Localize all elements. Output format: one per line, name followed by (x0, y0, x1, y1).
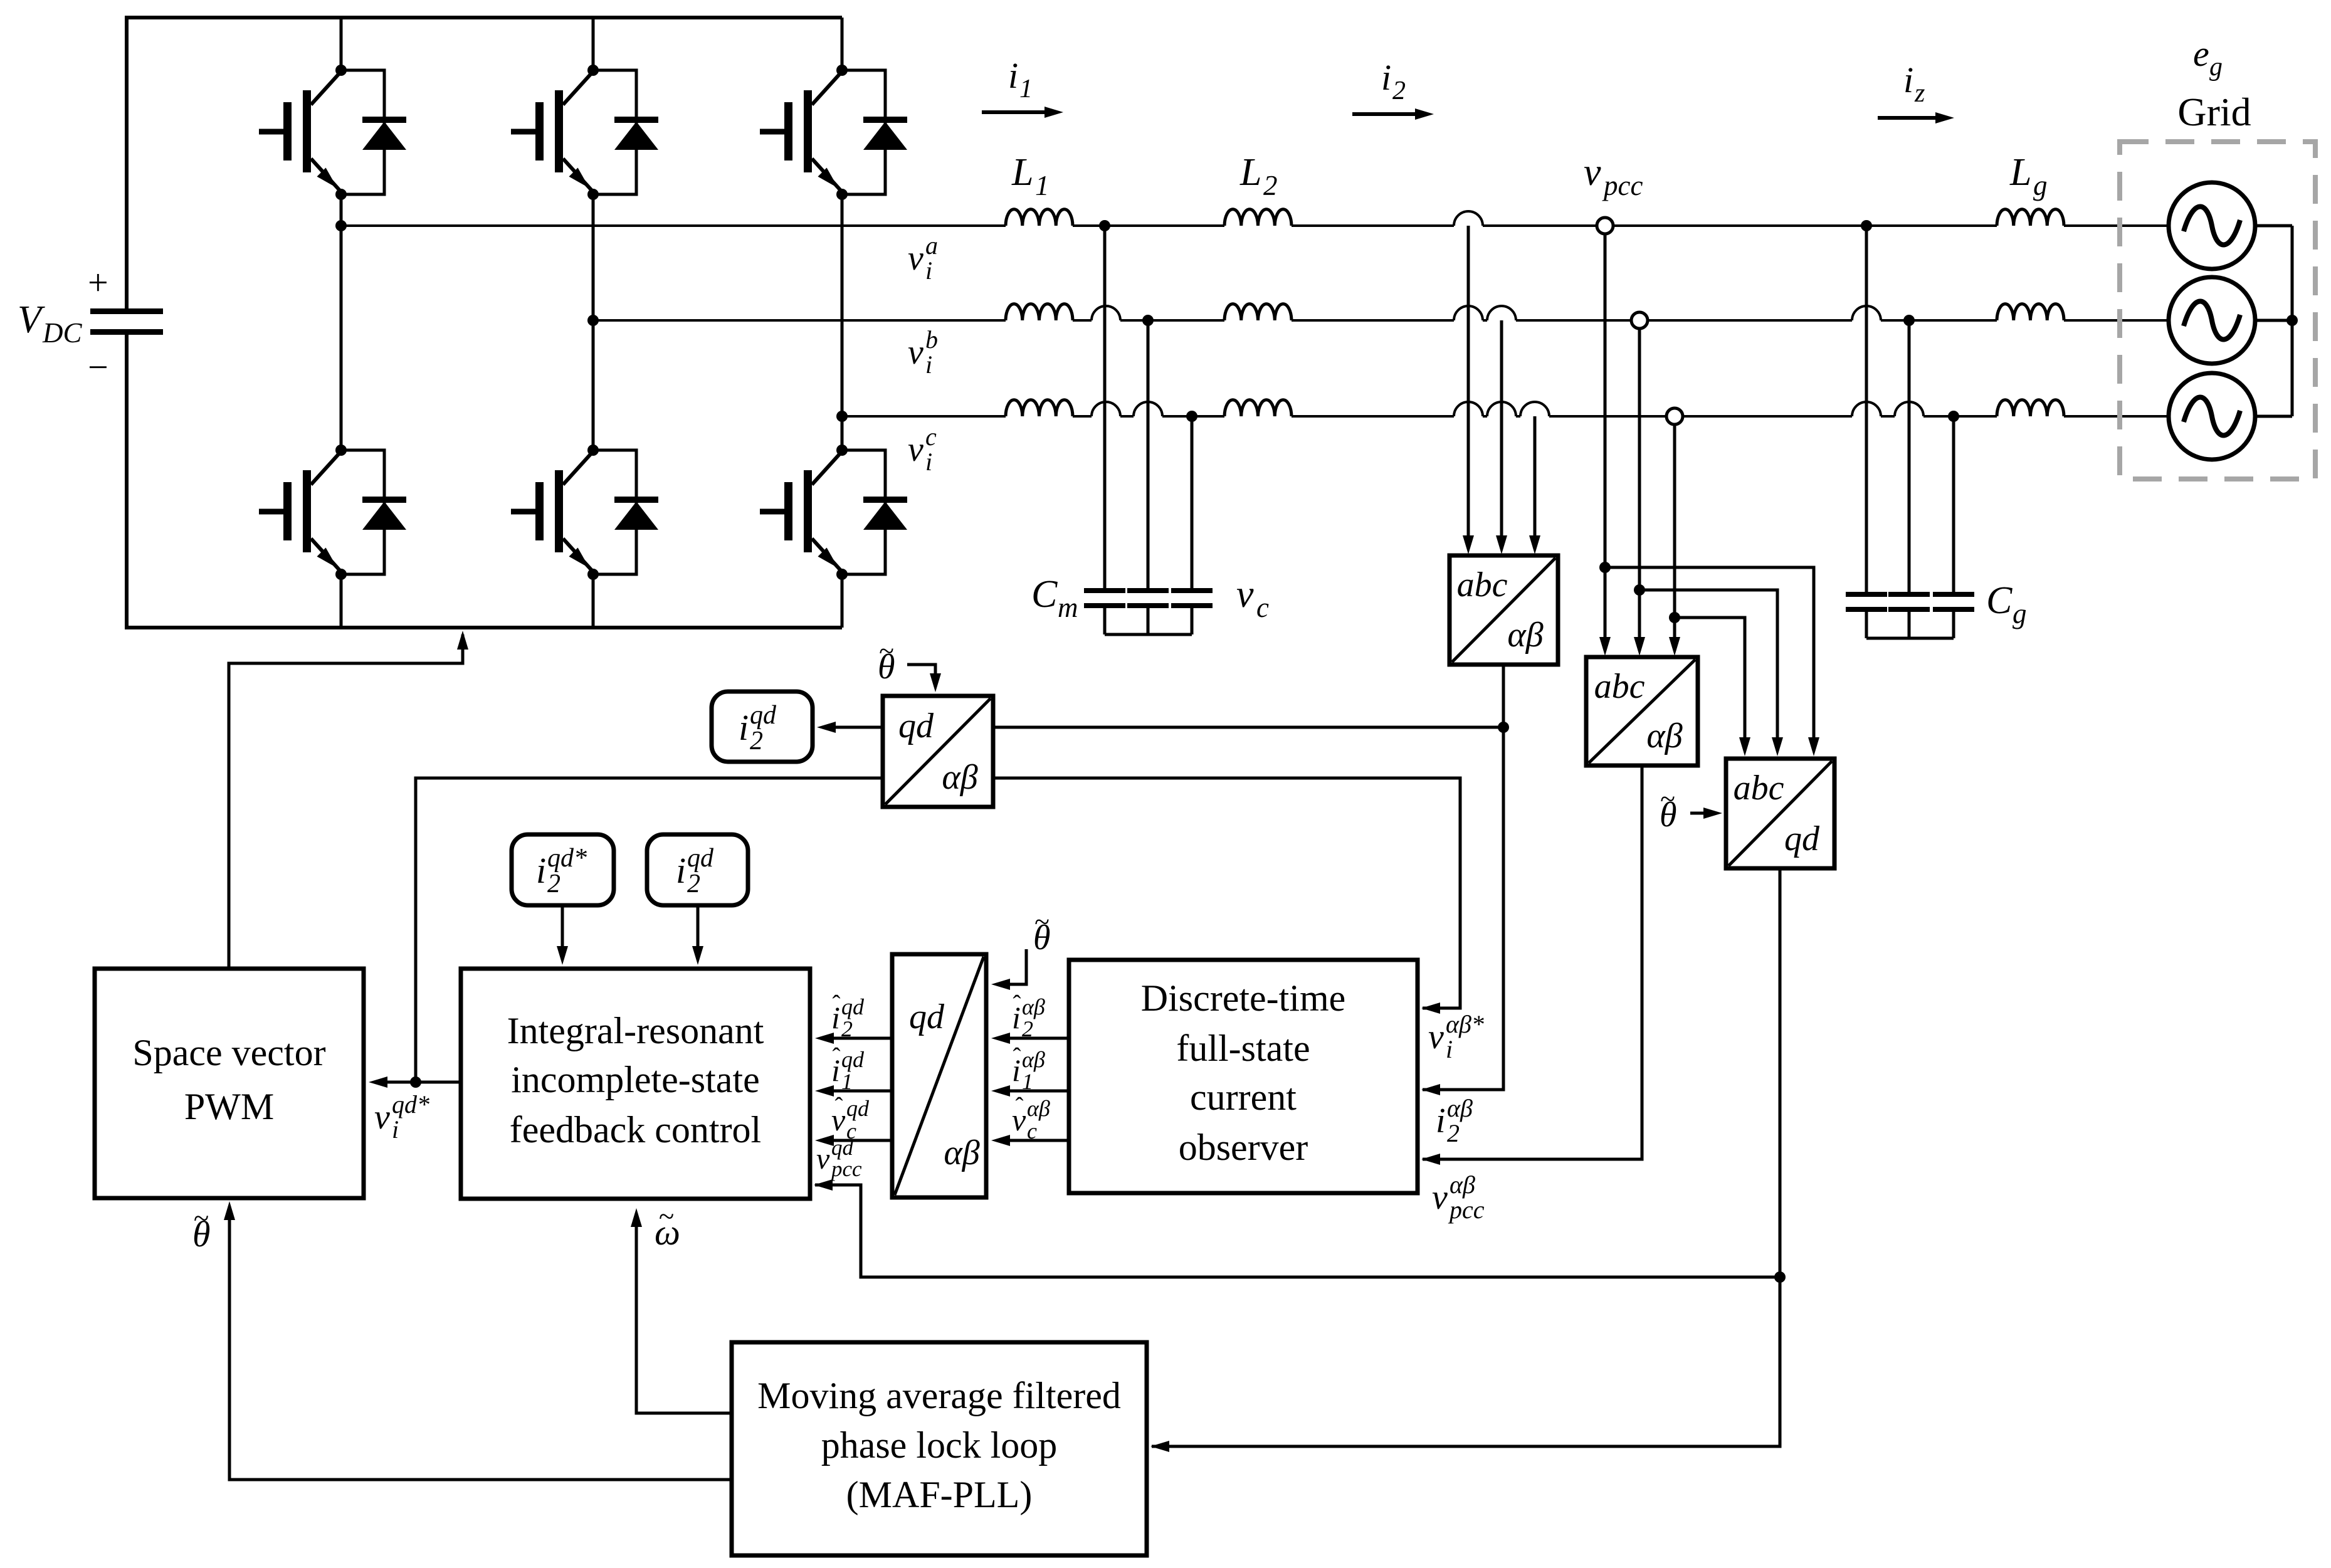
svg-text:v: v (1432, 1178, 1448, 1217)
svg-text:v: v (1584, 151, 1601, 194)
svg-text:abc: abc (1594, 667, 1645, 706)
wire: inverter leg 2 upper vertical (592, 18, 595, 70)
svg-text:qd: qd (841, 1047, 865, 1072)
hop: phase b over sensor-a wire (1454, 306, 1483, 320)
wire: Cm tap 1 (1103, 226, 1107, 588)
svg-text:C: C (1031, 573, 1058, 616)
wire: i2qd fb to feedback (697, 905, 700, 960)
wire: Cg tap 2 (1908, 320, 1911, 592)
inductor Lg phase c (1997, 400, 2064, 416)
svg-text:ˆ: ˆ (1013, 991, 1021, 1018)
node: vi qd* branch (410, 1076, 421, 1088)
svg-text:αβ: αβ (1646, 717, 1682, 755)
svg-text:~: ~ (1660, 784, 1675, 814)
wire: vi qd* to SVPWM (374, 1081, 461, 1084)
svg-text:m: m (1058, 592, 1078, 623)
svg-text:2: 2 (547, 870, 560, 898)
wire: Cg cap 3 to bar (1952, 612, 1955, 638)
svg-text:i: i (536, 850, 546, 891)
signal box i2qd out (712, 692, 813, 762)
wire: vi ab* to observer (993, 778, 1460, 1008)
wire: theta to SVPWM (229, 1206, 732, 1480)
inductor L1 phase a (1006, 209, 1073, 226)
wire: qd/ab2 to feedback y=1656 (820, 1037, 892, 1040)
transform block qd/ab observer (892, 954, 986, 1197)
wire: Cm common bar (1105, 633, 1192, 636)
wire: grid neutral bus (2291, 226, 2294, 416)
svg-text:qd: qd (898, 707, 934, 745)
svg-text:2: 2 (1447, 1119, 1460, 1147)
node vpcc phase b (open circle) (1631, 312, 1648, 329)
transistor Q5 (IGBT) (511, 445, 636, 580)
transform block abc/ab vpcc (1586, 657, 1698, 766)
arrow iz (1878, 116, 1944, 120)
wire: observer to qd/ab2 y=1740 (996, 1090, 1069, 1093)
wire: i2 sensor drop x=2448 (1534, 416, 1537, 549)
node: Cg tap phase b (1903, 315, 1915, 326)
wire: Cm cap 2 to bar (1147, 608, 1150, 634)
svg-text:i: i (1903, 60, 1913, 100)
svg-text:qd: qd (750, 701, 777, 730)
block MAF-PLL (732, 1342, 1147, 1555)
node: phase output leg 2 (587, 315, 599, 326)
svg-text:ˆ: ˆ (1013, 1043, 1021, 1070)
svg-text:2: 2 (841, 1016, 853, 1041)
wire: qd/ab2 to feedback y=1819 (820, 1139, 892, 1142)
wire: Cm tap 3 (1191, 416, 1194, 588)
svg-text:qd*: qd* (547, 844, 587, 873)
svg-text:qd: qd (687, 844, 714, 873)
wire: vi qd* up to qd/ab (416, 778, 883, 1082)
block observer (1069, 960, 1418, 1193)
svg-text:αβ: αβ (1022, 1047, 1045, 1072)
wire: egb to neutral bus (2255, 319, 2292, 322)
svg-text:abc: abc (1457, 566, 1508, 604)
transistor Q6 (IGBT) (760, 445, 885, 580)
node vpcc phase a (open circle) (1597, 218, 1613, 234)
wire: vpcc b to abc/qd (1639, 590, 1777, 751)
svg-text:αβ: αβ (1507, 616, 1543, 655)
hop: phase b over Cg-a wire (1852, 306, 1881, 320)
diode D-Q6 (antiparallel) (863, 497, 907, 530)
AC source egb (2169, 277, 2255, 364)
arrow i1 (982, 110, 1053, 114)
inductor L2 phase a (1224, 209, 1292, 226)
capacitor Cm-2 (1127, 588, 1169, 593)
svg-text:qd*: qd* (392, 1090, 429, 1118)
node: Cm tap phase b (1142, 315, 1154, 326)
wire: SVPWM to inverter gates (229, 634, 463, 969)
svg-text:full-state: full-state (1176, 1028, 1310, 1069)
svg-text:αβ: αβ (944, 1134, 979, 1172)
wire: observer to qd/ab2 y=1656 (996, 1037, 1069, 1040)
diode D-Q4 (antiparallel) (362, 497, 406, 530)
svg-text:2: 2 (750, 727, 763, 755)
svg-text:feedback control: feedback control (510, 1109, 761, 1150)
node: Cg tap phase c (1948, 411, 1959, 422)
wire: DC bus left vertical (upper) (125, 16, 129, 308)
wire: vpcc drop x=2671 (1673, 424, 1676, 651)
inductor L2 phase b (1224, 304, 1292, 320)
node: grid neutral (2286, 315, 2298, 326)
diode D-Q2 (antiparallel) (614, 117, 658, 150)
hop: phase c over Cm-b wire (1134, 402, 1162, 416)
svg-text:qd: qd (846, 1096, 870, 1121)
svg-text:c: c (1256, 592, 1269, 623)
wire: inverter leg 3 middle vertical (841, 194, 844, 450)
svg-text:ˆ: ˆ (833, 991, 841, 1018)
svg-text:(MAF-PLL): (MAF-PLL) (846, 1474, 1033, 1515)
svg-text:αβ*: αβ* (1446, 1010, 1484, 1038)
theta stub qd/ab top (907, 665, 935, 687)
svg-text:z: z (1914, 79, 1925, 108)
svg-text:v: v (374, 1098, 390, 1137)
block feedback control (461, 969, 810, 1199)
wire: omega to feedback control (636, 1213, 732, 1413)
capacitor Cm-1 (1084, 588, 1125, 593)
svg-text:−: − (88, 347, 108, 387)
svg-text:v: v (908, 430, 923, 469)
svg-text:1: 1 (1022, 1069, 1033, 1094)
svg-text:g: g (2209, 53, 2223, 82)
AC source ega (2169, 182, 2255, 269)
transistor Q2 (IGBT) (511, 65, 636, 200)
node: Cm tap phase a (1099, 220, 1110, 231)
svg-text:ˆ: ˆ (833, 1043, 841, 1070)
capacitor Cg-3 (1933, 592, 1974, 597)
svg-text:αβ: αβ (1022, 994, 1045, 1019)
svg-text:i: i (1436, 1102, 1446, 1140)
wire: Cg tap 1 (1865, 226, 1868, 592)
capacitor Cg-2 (1888, 592, 1930, 597)
node: vpcc branch c (1669, 612, 1680, 623)
wire: vpcc drop x=2560 (1604, 234, 1607, 651)
svg-text:L: L (1239, 151, 1261, 194)
inductor L2 phase c (1224, 400, 1292, 416)
svg-text:2: 2 (687, 870, 700, 898)
svg-text:Grid: Grid (2177, 90, 2251, 134)
wire: i2 ab sensor output down to observer (1423, 665, 1503, 1090)
block Space vector PWM (95, 969, 364, 1198)
wire: inverter leg 1 lower vertical (340, 574, 343, 628)
svg-text:current: current (1190, 1076, 1297, 1118)
svg-text:g: g (2033, 170, 2048, 201)
svg-text:αβ: αβ (1450, 1171, 1475, 1199)
svg-text:abc: abc (1734, 769, 1784, 808)
diode D-Q3 (antiparallel) (863, 117, 907, 150)
svg-text:C: C (1986, 579, 2013, 622)
wire: observer to qd/ab2 y=1819 (996, 1139, 1069, 1142)
svg-text:~: ~ (659, 1201, 674, 1232)
svg-text:b: b (925, 325, 938, 354)
svg-text:pcc: pcc (1602, 170, 1643, 201)
svg-text:i: i (739, 707, 749, 748)
diode D-Q5 (antiparallel) (614, 497, 658, 530)
wire: DC bus left vertical (lower) (125, 334, 129, 629)
signal box i2qd* ref (512, 834, 614, 905)
wire: Cm tap 2 (1147, 320, 1150, 588)
hop: phase b over Cm-a wire (1092, 306, 1120, 320)
wire: phase a line (341, 224, 2169, 227)
wire: i2 sensor drop x=2395 (1500, 320, 1503, 549)
wire: vpcc drop x=2615 (1638, 329, 1641, 651)
svg-text:αβ: αβ (942, 758, 977, 797)
svg-text:e: e (2193, 33, 2209, 74)
wire: i2qd out arrow (822, 726, 883, 729)
svg-text:v: v (908, 239, 923, 278)
transform block abc/ab i2 sensors (1450, 555, 1558, 665)
current sensor i2 phase b (1487, 306, 1516, 320)
wire: vpcc ab to observer (1423, 766, 1642, 1159)
svg-text:i: i (1381, 57, 1391, 98)
wire: inverter leg 2 lower vertical (592, 574, 595, 628)
svg-text:i: i (1446, 1035, 1453, 1063)
node: vpcc qd branch (1774, 1271, 1786, 1283)
svg-text:2: 2 (1392, 76, 1406, 105)
diode D-Q1 (antiparallel) (362, 117, 406, 150)
svg-text:DC: DC (42, 317, 82, 349)
arrow i2 (1352, 112, 1424, 116)
svg-text:Space vector: Space vector (132, 1032, 325, 1073)
hop: phase c over sensor-a wire (1454, 402, 1483, 416)
transistor Q3 (IGBT) (760, 65, 885, 200)
svg-text:c: c (1027, 1118, 1037, 1144)
wire: phase b line (593, 319, 2169, 322)
wire: inverter leg 3 lower vertical (841, 574, 844, 628)
wire: vpcc qd to feedback control (815, 1185, 1780, 1277)
svg-text:1: 1 (1019, 75, 1033, 103)
node: i2 ab junction (1498, 722, 1509, 733)
svg-text:L: L (1011, 151, 1033, 194)
wire: Cm cap 1 to bar (1103, 608, 1107, 634)
capacitor VDC (DC-link) (90, 308, 163, 335)
svg-text:2: 2 (1022, 1016, 1033, 1041)
current sensor i2 phase c (1520, 402, 1549, 416)
wire: inverter leg 1 middle vertical (340, 194, 343, 450)
svg-text:L: L (2009, 151, 2031, 194)
wire: vpcc c to abc/qd (1675, 618, 1745, 751)
svg-text:qd: qd (841, 994, 865, 1019)
wire: inverter leg 3 upper vertical (841, 18, 844, 70)
wire: Cg cap 1 to bar (1865, 612, 1868, 638)
svg-text:1: 1 (841, 1069, 853, 1094)
svg-text:+: + (88, 262, 108, 303)
node vpcc phase c (open circle) (1666, 408, 1683, 424)
wire: qd/ab2 to feedback y=1740 (820, 1090, 892, 1093)
wire: egc to neutral bus (2255, 415, 2292, 418)
svg-text:v: v (1428, 1018, 1444, 1056)
svg-text:ˆ: ˆ (1016, 1093, 1024, 1120)
signal box i2qd fb (647, 834, 748, 905)
hop: phase c over Cm-a wire (1092, 402, 1120, 416)
node: Cg tap phase a (1861, 220, 1872, 231)
wire: Cg common bar (1866, 637, 1954, 640)
svg-text:i: i (676, 850, 686, 891)
transistor Q1 (IGBT) (259, 65, 384, 200)
svg-text:Moving average filtered: Moving average filtered (757, 1375, 1121, 1416)
inductor Lg phase b (1997, 304, 2064, 320)
svg-text:V: V (18, 298, 45, 341)
wire: vpcc a to abc/qd (1605, 567, 1814, 751)
svg-text:~: ~ (879, 636, 894, 666)
svg-text:i: i (925, 256, 932, 285)
node: vpcc branch b (1634, 584, 1645, 596)
svg-text:incomplete-state: incomplete-state (511, 1059, 760, 1100)
wire: Cg cap 2 to bar (1908, 612, 1911, 638)
inductor L1 phase c (1006, 400, 1073, 416)
wire: ega to neutral bus (2255, 224, 2292, 228)
node: phase output leg 1 (335, 220, 347, 231)
svg-text:a: a (925, 231, 938, 260)
capacitor Cg-1 (1846, 592, 1887, 597)
theta stub qd/ab observer (996, 949, 1026, 984)
svg-text:Integral-resonant: Integral-resonant (507, 1010, 764, 1051)
wire: i2 ab to qd/ab box (993, 726, 1503, 729)
svg-text:~: ~ (1034, 907, 1050, 937)
wire: i2 sensor drop x=2342 (1467, 226, 1470, 549)
wire: i2qd* ref to feedback (561, 905, 564, 960)
svg-text:ˆ: ˆ (835, 1093, 843, 1120)
svg-text:v: v (816, 1142, 830, 1176)
node: vpcc branch a (1599, 562, 1611, 573)
dashed box: Grid (2120, 142, 2315, 479)
svg-text:i: i (925, 350, 932, 379)
node: Cm tap phase c (1186, 411, 1197, 422)
transistor Q4 (IGBT) (259, 445, 384, 580)
svg-text:qd: qd (909, 997, 945, 1036)
wire: inverter leg 1 upper vertical (340, 18, 343, 70)
capacitor Cm-3 (1171, 588, 1213, 593)
svg-text:pcc: pcc (1448, 1196, 1485, 1224)
wire: Cm cap 3 to bar (1191, 608, 1194, 634)
hop: phase c over Cg-b wire (1895, 402, 1923, 416)
inductor Lg phase a (1997, 209, 2064, 226)
svg-text:~: ~ (194, 1202, 209, 1234)
svg-text:phase lock loop: phase lock loop (821, 1424, 1058, 1466)
wire: vpcc qd from abc/qd down to MAF-PLL (1152, 868, 1780, 1446)
svg-text:αβ: αβ (1447, 1094, 1473, 1122)
svg-text:g: g (2013, 598, 2027, 629)
svg-text:i: i (1008, 55, 1018, 96)
AC source egc (2169, 373, 2255, 460)
wire: DC+ top bus (127, 16, 842, 19)
node: phase output leg 3 (836, 411, 848, 422)
theta stub abc/qd (1690, 812, 1717, 815)
hop: phase c over Cg-a wire (1852, 402, 1881, 416)
svg-text:pcc: pcc (829, 1157, 862, 1181)
svg-text:2: 2 (1263, 170, 1278, 201)
svg-text:qd: qd (1784, 819, 1820, 858)
svg-text:c: c (925, 423, 937, 451)
transform block abc/qd vpcc (1726, 759, 1834, 868)
svg-text:v: v (908, 333, 923, 372)
svg-text:Discrete-time: Discrete-time (1141, 977, 1346, 1019)
inductor L1 phase b (1006, 304, 1073, 320)
wire: phase c line (842, 415, 2169, 418)
svg-text:i: i (392, 1115, 399, 1144)
svg-text:1: 1 (1035, 170, 1050, 201)
hop: phase c over sensor-b wire (1487, 402, 1516, 416)
svg-text:c: c (846, 1118, 856, 1144)
transform block qd/ab top (883, 696, 993, 807)
wire: Cg tap 3 (1952, 416, 1955, 592)
svg-text:v: v (1236, 573, 1254, 616)
svg-text:PWM: PWM (184, 1086, 274, 1127)
svg-text:αβ: αβ (1027, 1096, 1050, 1121)
current sensor i2 phase a (1454, 211, 1483, 226)
wire: inverter leg 2 middle vertical (592, 194, 595, 450)
svg-text:observer: observer (1179, 1127, 1308, 1168)
svg-text:i: i (925, 448, 932, 476)
wire: DC- bottom bus (127, 626, 842, 629)
